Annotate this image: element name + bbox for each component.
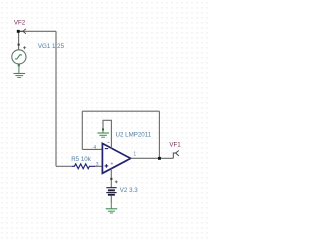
node VF2 (junction dot) <box>17 30 20 33</box>
wire: op-amp output to VF1 <box>131 157 174 159</box>
ground below battery <box>106 209 118 213</box>
terminal dot VG1 top <box>18 44 20 46</box>
svg-text:U2 LMP2011: U2 LMP2011 <box>116 132 152 139</box>
resistor R5 <box>72 164 96 169</box>
voltage generator VG1 circle <box>12 50 26 64</box>
test point VF1 (voltage pin arrow) <box>173 151 179 159</box>
wire: feedback loop top <box>82 110 159 112</box>
wire: VF2 node to top-right corner <box>19 30 57 32</box>
wire: feedback loop right (to output) <box>158 111 160 158</box>
sine wave inside VG1 <box>15 55 22 59</box>
terminal dot VG1 bottom <box>18 64 20 66</box>
wire: feedback to -input <box>82 148 102 150</box>
ground below VG1 <box>14 74 26 78</box>
wire: V+ supply stub down to battery <box>110 169 112 188</box>
plus marker VG1 <box>23 46 26 49</box>
wire: green stub to ground <box>102 130 104 133</box>
wire: left column vertical <box>55 31 57 166</box>
svg-text:4: 4 <box>93 145 96 151</box>
terminal dot supply ground <box>102 129 104 131</box>
svg-text:V2 3.3: V2 3.3 <box>120 187 138 194</box>
plus input marker <box>105 164 109 168</box>
svg-text:1: 1 <box>133 151 136 157</box>
svg-text:VG1 1.25: VG1 1.25 <box>38 43 65 50</box>
wire: R5 to op-amp +input <box>95 165 102 167</box>
wire: bottom horizontal to R5 <box>56 165 72 167</box>
minus input marker <box>105 148 108 150</box>
ground at op-amp V- <box>97 133 109 137</box>
wire: battery bottom to ground <box>110 196 112 204</box>
minus supply tiny label <box>108 141 110 143</box>
wire: feedback loop left <box>81 111 83 149</box>
svg-text:VF2: VF2 <box>14 19 26 26</box>
test point VF2 (voltage pin arrow) <box>20 29 26 34</box>
svg-text:3: 3 <box>96 162 99 168</box>
op-amp U2 triangle <box>102 143 130 173</box>
node: output junction <box>158 157 161 160</box>
wire: VG1 bottom stub to ground <box>18 64 20 73</box>
plus supply tiny label <box>111 162 114 165</box>
plus marker battery <box>115 180 118 183</box>
svg-text:R5 10k: R5 10k <box>71 156 92 163</box>
terminal dot battery top <box>110 178 112 180</box>
battery V2 <box>106 188 116 196</box>
svg-text:VF1: VF1 <box>169 142 181 149</box>
wire: V- supply stub up and over to ground <box>103 120 111 148</box>
wire: VF2 node down to VG1 top terminal <box>18 31 20 50</box>
